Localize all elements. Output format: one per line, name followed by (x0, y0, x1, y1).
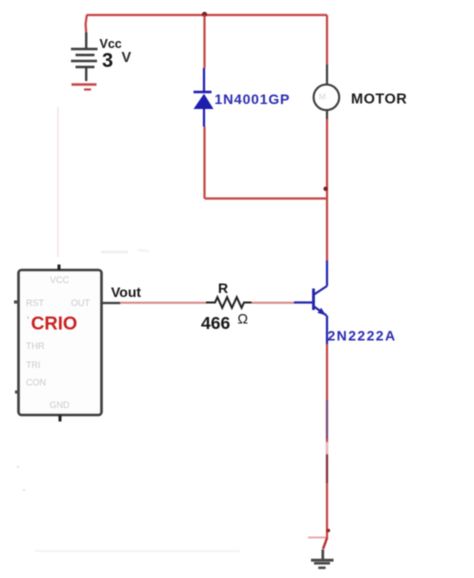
junction: top rail / diode branch (202, 12, 207, 17)
svg-text:V: V (122, 50, 132, 66)
wire: diode bottom horizontal (205, 197, 328, 199)
pin stub: GND bottom (59, 415, 62, 422)
wire: resistor to base (252, 302, 295, 304)
battery V1 Vcc 3V (71, 33, 98, 82)
junction: emitter stub (327, 529, 331, 533)
wire: motor to collector vertical (326, 119, 328, 261)
svg-text:TRI: TRI (26, 360, 41, 370)
svg-text:466: 466 (201, 313, 230, 333)
wire: emitter down (326, 344, 328, 539)
svg-text:1N4001GP: 1N4001GP (215, 91, 291, 107)
faint smudge (101, 251, 128, 253)
wire: emitter overlay dark segment (326, 400, 328, 439)
wire: battery positive stub (86, 15, 87, 33)
wire: Vout to resistor (120, 302, 207, 304)
svg-text:CON: CON (26, 378, 46, 388)
svg-text:Vout: Vout (111, 284, 141, 300)
svg-text:Ω: Ω (238, 311, 248, 327)
svg-text:M: M (319, 92, 326, 102)
diode D1 1N4001GP (194, 68, 214, 127)
wire: Vcc top rail (87, 14, 328, 16)
wire: emitter overlay dark segment (326, 455, 328, 483)
svg-text:THR: THR (26, 341, 45, 351)
wire: diode bottom lead (203, 127, 205, 199)
svg-text:RST: RST (26, 298, 45, 308)
transistor Q1 2N2222A (294, 261, 327, 345)
svg-text:CRIO: CRIO (31, 313, 77, 334)
wire: diode branch top (203, 15, 205, 68)
IC U1 CRIO body (19, 270, 102, 415)
svg-text:': ' (27, 315, 29, 327)
wire: rail to motor (326, 15, 328, 65)
svg-text:MOTOR: MOTOR (351, 92, 407, 108)
motor M1 (314, 65, 340, 120)
faint smudge band (35, 550, 240, 552)
wire: faint remnant to U1 VCC (57, 107, 59, 257)
svg-text:3: 3 (102, 50, 113, 72)
svg-text:Vcc: Vcc (100, 37, 122, 51)
junction: collector net (323, 187, 327, 191)
resistor R 466 ohm (206, 297, 252, 308)
svg-text:OUT: OUT (71, 298, 91, 308)
svg-text:GND: GND (50, 400, 71, 410)
ground (battery negative, red) (72, 85, 97, 90)
wire stub (faded) (308, 537, 326, 539)
wire: jog to ground (323, 538, 327, 549)
pin stub: left upper (14, 300, 19, 303)
ground (311, 550, 334, 568)
wire: emitter overlay gap (326, 442, 328, 454)
pin stub: VCC top (58, 265, 61, 271)
pin stub: left lower (15, 390, 19, 393)
svg-text:R: R (218, 280, 228, 296)
svg-text:VCC: VCC (50, 275, 70, 285)
svg-text:2N2222A: 2N2222A (328, 328, 397, 344)
pin stub: OUT to wire (102, 302, 121, 304)
